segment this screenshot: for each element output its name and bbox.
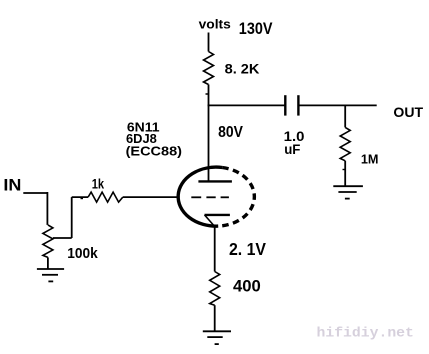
resistor R2 1M vertical zigzag (340, 127, 350, 160)
ground under R2 (333, 186, 363, 198)
wire branch from R3 top to grid riser (53, 237, 72, 239)
resistor R4 1k horizontal zigzag (88, 192, 123, 202)
wire cathode down to R5 (214, 227, 216, 272)
wire R2 to ground (344, 161, 346, 186)
junction tick at plate node (206, 93, 209, 95)
svg-text:8. 2K: 8. 2K (225, 60, 260, 76)
wire capacitor to OUT (298, 104, 376, 106)
wire grid riser vertical (71, 197, 73, 238)
svg-text:OUT: OUT (393, 105, 423, 120)
op-amp U1 tube 6N11 envelope solid left arc (178, 167, 222, 226)
svg-text:100k: 100k (67, 246, 98, 262)
resistor R1 8.2K vertical zigzag (204, 52, 214, 85)
svg-text:hifidiy.net: hifidiy.net (317, 327, 414, 342)
wire plate node to capacitor (208, 104, 286, 106)
wire IN down to R3 (46, 192, 48, 225)
op-amp U1 tube envelope dashed right arc (218, 168, 254, 227)
svg-text:1k: 1k (92, 177, 105, 192)
tube U1 cathode lead diagonal (205, 215, 215, 227)
wire plate node down to tube anode (208, 105, 210, 181)
wire B+ vertical from volts to R1 top (208, 33, 210, 52)
tube U1 anode plate line (198, 180, 232, 182)
resistor R5 400 vertical zigzag (210, 272, 220, 306)
svg-text:130V: 130V (239, 19, 273, 38)
svg-text:2. 1V: 2. 1V (229, 239, 266, 259)
svg-text:IN: IN (3, 176, 21, 194)
wire OUT node down to R2 (344, 105, 346, 127)
tube U1 cathode line (205, 214, 230, 216)
svg-text:uF: uF (284, 141, 301, 157)
svg-text:(ECC88): (ECC88) (126, 143, 182, 158)
junction tick on grid wire (81, 198, 84, 200)
svg-text:400: 400 (233, 276, 261, 295)
ground under R3 (37, 269, 64, 281)
wire R4 to tube grid (123, 196, 180, 198)
wire R1 bottom to plate node (208, 85, 210, 106)
wire R3 to ground (47, 257, 49, 269)
svg-text:volts: volts (199, 17, 231, 32)
junction tick on R2 lead (343, 169, 346, 171)
wire IN horizontal (23, 192, 47, 194)
capacitor C1 right plate (297, 95, 299, 115)
ground under R5 (203, 331, 231, 344)
tube U1 grid dashed line (191, 196, 229, 198)
svg-text:80V: 80V (218, 124, 243, 141)
wire riser to R4 (72, 196, 88, 198)
wire R5 to ground (214, 305, 216, 331)
svg-text:1M: 1M (361, 152, 379, 167)
capacitor C1 left plate (284, 95, 286, 115)
resistor R3 100k vertical zigzag (43, 225, 53, 258)
